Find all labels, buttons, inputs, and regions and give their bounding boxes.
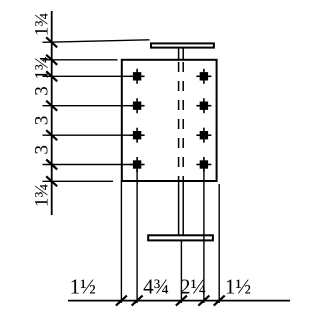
svg-text:1¾: 1¾ bbox=[32, 56, 53, 80]
bolt B1 row1 right bbox=[196, 69, 211, 84]
beam bottom flange bbox=[148, 235, 213, 240]
bolt A4 row4 left bbox=[130, 157, 145, 172]
svg-text:3: 3 bbox=[32, 86, 53, 96]
left vertical dimension line bbox=[51, 11, 53, 215]
tick at plate-bottom dim point bbox=[46, 176, 57, 186]
bolt A3 row3 left bbox=[130, 128, 145, 143]
bolt B3 row3 right bbox=[196, 128, 211, 143]
extension line to bolt row 3 bbox=[43, 134, 135, 136]
beam top flange bbox=[151, 43, 214, 47]
extension line to bolt row 4 bbox=[43, 164, 135, 166]
beam web below plate (left face) bbox=[178, 181, 180, 235]
svg-text:4¾: 4¾ bbox=[143, 275, 169, 299]
tick at web-centerline dim point bbox=[176, 296, 187, 306]
tick at row-2 dim point bbox=[46, 101, 57, 111]
connection plate bbox=[122, 60, 217, 181]
beam web above plate (left face) bbox=[178, 48, 180, 60]
tick at row-1 dim point bbox=[46, 71, 57, 81]
tick at right-gauge dim point bbox=[198, 296, 209, 306]
svg-text:2¼: 2¼ bbox=[180, 275, 206, 299]
extension line to plate bottom bbox=[43, 180, 114, 182]
hidden beam web behind plate (right face, dashed) bbox=[182, 62, 184, 180]
extension line to bolt row 2 bbox=[43, 105, 135, 107]
beam web below plate (right face) bbox=[182, 181, 184, 235]
tick at row-3 dim point bbox=[46, 130, 57, 140]
beam web above plate (right face) bbox=[182, 48, 184, 60]
svg-text:1½: 1½ bbox=[70, 275, 96, 299]
extension line right bolt gauge (bottom dims) bbox=[203, 168, 205, 303]
extension line left bolt gauge (bottom dims) bbox=[136, 168, 138, 303]
svg-text:1½: 1½ bbox=[225, 275, 251, 299]
tick at plate-right dim point bbox=[214, 296, 225, 306]
extension line plate right edge (bottom dims) bbox=[218, 184, 220, 303]
extension line plate left edge (bottom dims) bbox=[120, 181, 122, 303]
svg-text:1¾: 1¾ bbox=[32, 12, 53, 36]
tick at flange-top dim point bbox=[46, 37, 57, 47]
tick at plate-left dim point bbox=[116, 296, 127, 306]
svg-text:3: 3 bbox=[32, 116, 53, 126]
tick at plate-top dim point bbox=[46, 55, 57, 65]
svg-text:1¾: 1¾ bbox=[32, 183, 53, 207]
bottom horizontal dimension line bbox=[68, 300, 290, 302]
extension line to bolt row 1 bbox=[43, 75, 135, 77]
tick at row-4 dim point bbox=[46, 160, 57, 170]
bolt A2 row2 left bbox=[130, 98, 145, 113]
bolt A1 row1 left bbox=[130, 69, 145, 84]
svg-text:3: 3 bbox=[32, 145, 53, 155]
hidden beam web behind plate (left face, dashed) bbox=[178, 62, 180, 180]
bolt B2 row2 right bbox=[196, 98, 211, 113]
extension line to plate top bbox=[43, 59, 118, 61]
tick at left-gauge dim point bbox=[132, 296, 143, 306]
bolt B4 row4 right bbox=[196, 157, 211, 172]
extension line to beam top flange bbox=[43, 40, 150, 43]
extension line web centerline (bottom dims) bbox=[180, 240, 182, 303]
